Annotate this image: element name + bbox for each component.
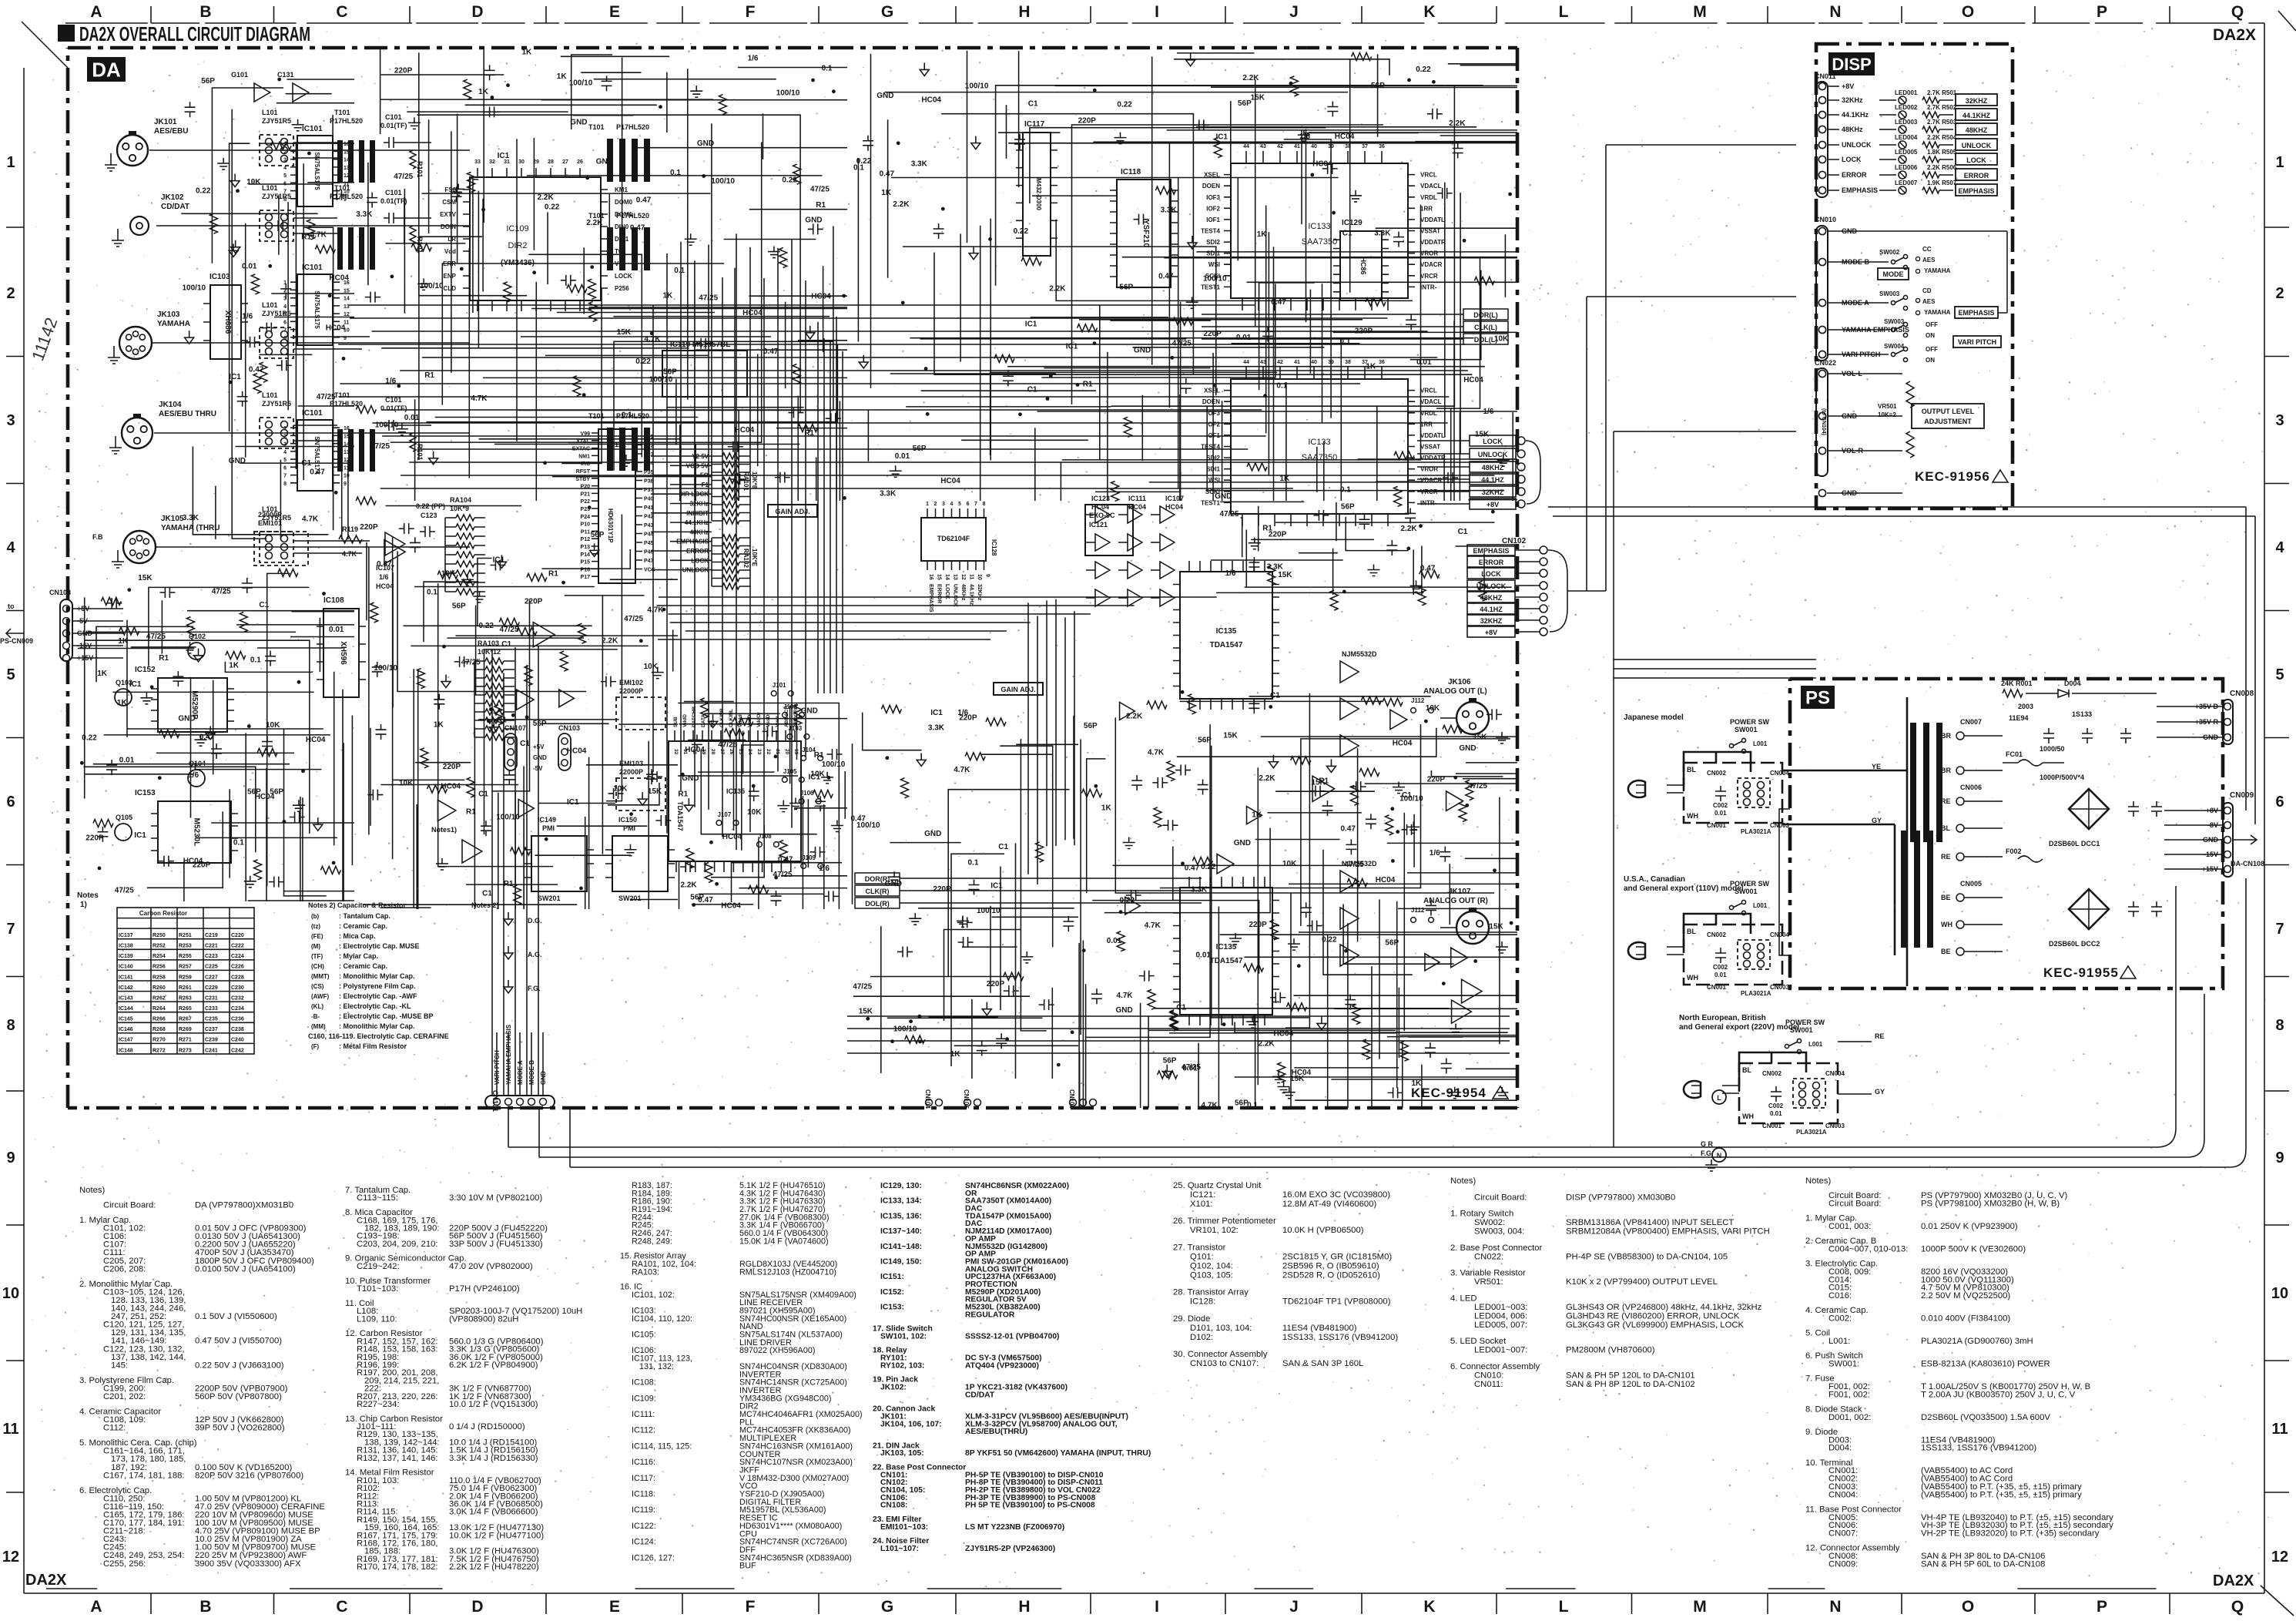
svg-text:0.47: 0.47 <box>1158 273 1174 281</box>
svg-text:47/25: 47/25 <box>146 633 166 641</box>
svg-text:EMPHASIS: EMPHASIS <box>1958 187 1994 195</box>
svg-text:L101: L101 <box>262 391 278 399</box>
svg-text:3.3K 1/4 J (RD156330): 3.3K 1/4 J (RD156330) <box>449 1454 538 1463</box>
svg-text:4.7K: 4.7K <box>310 230 327 239</box>
svg-text:GL3HD43 RE (VI860200) ERROR, U: GL3HD43 RE (VI860200) ERROR, UNLOCK <box>1566 1311 1740 1321</box>
svg-text:15K: 15K <box>138 574 153 582</box>
svg-text:1SS133, 1SS176 (VB941200): 1SS133, 1SS176 (VB941200) <box>1921 1444 2036 1453</box>
svg-text:0.01: 0.01 <box>242 263 257 271</box>
svg-text:10K*8: 10K*8 <box>751 472 758 489</box>
svg-text:560P 50V (VP807800): 560P 50V (VP807800) <box>195 1392 282 1401</box>
svg-text:0.1: 0.1 <box>670 169 681 177</box>
svg-text:10.0 1/2 F (VQ151300): 10.0 1/2 F (VQ151300) <box>449 1400 538 1409</box>
svg-text:IC1: IC1 <box>229 373 241 381</box>
svg-text:0.22: 0.22 <box>82 734 97 743</box>
svg-text:10.0K H (VPB06500): 10.0K H (VPB06500) <box>1282 1226 1364 1235</box>
svg-text:R268: R268 <box>153 1027 166 1032</box>
svg-text:OFF: OFF <box>1926 346 1938 353</box>
svg-text:L001: L001 <box>1753 902 1768 909</box>
svg-text:J: J <box>1289 3 1299 21</box>
svg-text:NC: NC <box>710 720 716 727</box>
svg-text:145:: 145: <box>111 1361 128 1370</box>
svg-text:47/25: 47/25 <box>1220 510 1239 519</box>
svg-text:J104: J104 <box>802 747 816 753</box>
svg-text:39: 39 <box>1328 360 1334 365</box>
svg-text:3.3K: 3.3K <box>928 723 945 732</box>
svg-text:GND: GND <box>1842 412 1858 420</box>
svg-text:GND: GND <box>77 629 93 637</box>
svg-text:IC122:: IC122: <box>632 1522 656 1531</box>
svg-text:IC119 M51957BL: IC119 M51957BL <box>670 341 730 349</box>
svg-text:CN105: CN105 <box>963 1089 970 1109</box>
svg-text:56P: 56P <box>1341 503 1355 512</box>
svg-text:R271: R271 <box>179 1038 192 1043</box>
svg-text:IC126, 127:: IC126, 127: <box>632 1553 675 1562</box>
svg-text:40: 40 <box>1311 360 1317 365</box>
svg-text:0.01: 0.01 <box>895 452 910 461</box>
svg-text:CSM: CSM <box>442 199 456 206</box>
svg-text:G R: G R <box>1701 1140 1714 1148</box>
svg-text:GND: GND <box>877 92 893 100</box>
svg-text:KEC-91955: KEC-91955 <box>2043 965 2119 980</box>
svg-text:44: 44 <box>1243 144 1249 149</box>
svg-text:T101: T101 <box>588 412 605 420</box>
svg-text:IC129: IC129 <box>1342 219 1363 227</box>
svg-text:XSEL: XSEL <box>1204 172 1220 179</box>
svg-text:4.7K: 4.7K <box>342 550 357 558</box>
svg-text:5: 5 <box>958 502 961 507</box>
svg-text:IC128:: IC128: <box>1190 1297 1215 1307</box>
svg-text:25: 25 <box>738 749 743 755</box>
svg-text:U.S.A., Canadian: U.S.A., Canadian <box>1624 875 1685 884</box>
svg-text:220P: 220P <box>1249 921 1268 929</box>
svg-text:IC1: IC1 <box>930 709 943 717</box>
svg-text:and General export (220V) mode: and General export (220V) model <box>1679 1023 1799 1032</box>
svg-text:7: 7 <box>6 921 15 938</box>
svg-text:30. Connector Assembly: 30. Connector Assembly <box>1173 1350 1268 1359</box>
svg-text:5: 5 <box>2275 666 2284 683</box>
svg-text:TEST4: TEST4 <box>1201 228 1220 235</box>
svg-text:PS-CN009: PS-CN009 <box>0 637 33 645</box>
svg-text:56P: 56P <box>690 893 704 901</box>
svg-text:WH: WH <box>1687 974 1698 982</box>
svg-text:GND: GND <box>924 830 941 838</box>
svg-text:100/10: 100/10 <box>893 1025 917 1033</box>
svg-text:(FE): (FE) <box>311 933 323 940</box>
svg-text:IOF2: IOF2 <box>1206 421 1220 428</box>
svg-text:CN107: CN107 <box>504 724 526 732</box>
svg-text:0.01(TF): 0.01(TF) <box>380 197 407 205</box>
svg-text:C221: C221 <box>205 944 218 949</box>
svg-text:CN004: CN004 <box>1770 770 1789 777</box>
svg-text:47/25: 47/25 <box>624 615 643 623</box>
svg-text:C001, 003:: C001, 003: <box>1828 1222 1871 1231</box>
svg-text:11E94: 11E94 <box>2009 714 2029 722</box>
svg-text:IC138: IC138 <box>119 944 133 949</box>
svg-text:JK102: JK102 <box>161 193 184 202</box>
svg-text:LOCK: LOCK <box>1483 438 1503 445</box>
svg-text:DIN0: DIN0 <box>615 223 629 230</box>
svg-text:CN002: CN002 <box>1762 1070 1781 1077</box>
svg-text:1/6: 1/6 <box>1299 133 1310 141</box>
svg-text:Japanese model: Japanese model <box>1624 713 1684 722</box>
svg-text:0.47: 0.47 <box>249 365 264 374</box>
svg-text:4: 4 <box>283 304 287 310</box>
svg-text:0.1: 0.1 <box>853 164 864 173</box>
svg-text:DA2X: DA2X <box>2213 26 2256 44</box>
svg-text:0.01: 0.01 <box>1107 937 1122 945</box>
svg-text:IRC: IRC <box>581 461 590 467</box>
svg-text:ERROR: ERROR <box>1842 171 1867 179</box>
svg-text:220P: 220P <box>1078 117 1097 126</box>
svg-text:5. LED Socket: 5. LED Socket <box>1450 1337 1507 1346</box>
svg-text:HC04: HC04 <box>306 736 326 744</box>
svg-text:-B-: -B- <box>311 1013 320 1020</box>
svg-text:11ES4 (VB481900): 11ES4 (VB481900) <box>1282 1324 1357 1333</box>
svg-text:HC04: HC04 <box>742 309 763 317</box>
svg-text:56P: 56P <box>201 77 215 86</box>
svg-text:2SB596 R, O (IB059610): 2SB596 R, O (IB059610) <box>1282 1261 1379 1270</box>
svg-text:CN011:: CN011: <box>1474 1380 1503 1389</box>
svg-text:SW201: SW201 <box>538 894 561 902</box>
svg-text:EMPHASIS: EMPHASIS <box>676 539 709 545</box>
svg-text:Notes1): Notes1) <box>431 826 457 834</box>
svg-text:IC108:: IC108: <box>632 1378 656 1388</box>
svg-text:P17HL520: P17HL520 <box>616 123 649 131</box>
svg-text:SN74HC365NSR (XD839A00): SN74HC365NSR (XD839A00) <box>739 1553 852 1562</box>
svg-text:JK103: JK103 <box>157 310 180 319</box>
svg-text:47/25: 47/25 <box>317 393 336 401</box>
svg-text:Notes): Notes) <box>79 1186 106 1195</box>
svg-text:4.7K: 4.7K <box>1117 992 1134 1000</box>
svg-text:JK104, 106, 107:: JK104, 106, 107: <box>880 1420 942 1428</box>
svg-text:YE: YE <box>1872 763 1881 770</box>
svg-text:1/6: 1/6 <box>188 771 199 780</box>
svg-text:PH-4P SE (VB858300) to DA-CN10: PH-4P SE (VB858300) to DA-CN104, 105 <box>1566 1252 1728 1261</box>
svg-text:2.2K: 2.2K <box>538 193 555 202</box>
svg-text:VSSAT: VSSAT <box>1420 444 1440 451</box>
svg-text:AES: AES <box>1922 257 1936 263</box>
svg-text:IC142: IC142 <box>119 985 133 991</box>
svg-text:IC103: IC103 <box>209 273 230 281</box>
svg-text:GND: GND <box>682 774 699 783</box>
svg-text:IC152: IC152 <box>135 666 156 674</box>
svg-text:33P 500V J (FU451330): 33P 500V J (FU451330) <box>449 1240 543 1249</box>
svg-text:Circuit Board:: Circuit Board: <box>1474 1193 1527 1202</box>
svg-text:2: 2 <box>283 434 287 439</box>
svg-text:42: 42 <box>1277 144 1283 149</box>
svg-text:R261: R261 <box>179 985 192 991</box>
svg-text:SRBM13186A (VP841400) INPUT SE: SRBM13186A (VP841400) INPUT SELECT <box>1566 1218 1734 1227</box>
svg-text:HC04: HC04 <box>1292 1069 1312 1077</box>
svg-text:10K: 10K <box>613 785 628 794</box>
svg-text:1000P 500V K (VE302600): 1000P 500V K (VE302600) <box>1921 1245 2026 1254</box>
svg-text:HC04: HC04 <box>376 582 394 590</box>
svg-text:IC147: IC147 <box>119 1038 133 1043</box>
svg-text:-15V: -15V <box>2204 851 2218 858</box>
svg-text:INTR-: INTR- <box>1420 284 1437 290</box>
svg-text:WSI: WSI <box>1208 477 1220 484</box>
svg-text:2: 2 <box>2275 285 2284 302</box>
svg-text:TD62104F: TD62104F <box>937 535 970 542</box>
svg-text:16: 16 <box>344 426 350 431</box>
svg-text:JK107: JK107 <box>1448 888 1471 896</box>
svg-text:C101: C101 <box>385 396 402 404</box>
svg-text:RA103: RA103 <box>478 639 499 647</box>
svg-text:: Ceramic Cap.: : Ceramic Cap. <box>339 962 387 970</box>
svg-text:ZJY51R5: ZJY51R5 <box>262 400 291 408</box>
svg-text:220P: 220P <box>394 66 413 75</box>
svg-text:P22: P22 <box>581 499 591 505</box>
svg-text:6: 6 <box>6 794 15 810</box>
svg-text:15K: 15K <box>1223 731 1238 740</box>
svg-text:SDI2: SDI2 <box>1206 455 1220 461</box>
svg-text:C1: C1 <box>259 601 269 609</box>
svg-text:T101: T101 <box>334 391 350 399</box>
svg-text:F.G: F.G <box>1701 1149 1711 1157</box>
svg-text:27: 27 <box>719 749 725 755</box>
svg-text:100/10: 100/10 <box>183 284 206 293</box>
svg-text:PLA3021A: PLA3021A <box>1741 990 1771 997</box>
svg-text:CLKINL: CLKINL <box>729 709 734 727</box>
svg-text:48KHz: 48KHz <box>960 584 966 601</box>
svg-text:P: P <box>2097 1598 2107 1616</box>
svg-text:32KHZ: 32KHZ <box>1966 97 1988 105</box>
svg-text:11: 11 <box>344 320 350 325</box>
svg-text:(MM): (MM) <box>311 1023 326 1030</box>
svg-text:GND: GND <box>805 216 822 224</box>
svg-text:C002: C002 <box>1713 964 1728 971</box>
svg-text:C235: C235 <box>205 1017 218 1022</box>
svg-text:DIR2: DIR2 <box>508 241 527 250</box>
svg-text:IC123: IC123 <box>1091 495 1110 502</box>
svg-text:SW002:: SW002: <box>1474 1218 1505 1227</box>
svg-text:N: N <box>1829 3 1841 21</box>
svg-text:(TF): (TF) <box>311 953 323 960</box>
svg-text:P256: P256 <box>615 285 629 292</box>
svg-text:47/25: 47/25 <box>699 294 718 303</box>
svg-text:P44: P44 <box>644 532 654 538</box>
svg-text:LOCK: LOCK <box>615 273 632 280</box>
svg-text:Vdd: Vdd <box>444 248 456 255</box>
svg-text:220P: 220P <box>1355 327 1373 336</box>
svg-text:VRDL: VRDL <box>1420 410 1437 417</box>
svg-text:4: 4 <box>283 450 287 455</box>
svg-text:HC04: HC04 <box>1165 503 1183 511</box>
svg-text:R273: R273 <box>179 1048 192 1053</box>
svg-text:IOF3: IOF3 <box>1206 410 1220 417</box>
svg-text:C1: C1 <box>501 640 511 649</box>
svg-text:IC1: IC1 <box>129 680 142 689</box>
svg-text:IC1: IC1 <box>990 881 1003 890</box>
svg-text:C1: C1 <box>1342 229 1352 237</box>
svg-text:CD/DAT: CD/DAT <box>965 1391 995 1399</box>
svg-text:Circuit Board:: Circuit Board: <box>103 1201 156 1210</box>
svg-text:P41: P41 <box>644 505 654 511</box>
svg-text:19: 19 <box>793 749 799 755</box>
svg-text:40: 40 <box>1311 144 1317 149</box>
svg-text:J105: J105 <box>783 768 797 775</box>
svg-text:3: 3 <box>283 442 287 448</box>
svg-text:13: 13 <box>344 166 350 171</box>
svg-text:CN104: CN104 <box>924 1089 931 1109</box>
svg-text:O: O <box>1962 3 1974 21</box>
svg-text:15: 15 <box>937 574 942 580</box>
svg-text:13: 13 <box>344 450 350 455</box>
svg-text:15K: 15K <box>617 328 632 337</box>
svg-text:IC101: IC101 <box>302 125 323 133</box>
svg-text:IOF3: IOF3 <box>1206 194 1220 201</box>
svg-text:TD62104F TP1 (VP808000): TD62104F TP1 (VP808000) <box>1282 1297 1391 1307</box>
svg-text:47/25: 47/25 <box>1468 782 1487 790</box>
svg-text:D101, 103, 104:: D101, 103, 104: <box>1190 1324 1252 1333</box>
svg-text:VR101, 102:: VR101, 102: <box>1190 1226 1238 1235</box>
svg-text:ON: ON <box>1926 357 1935 364</box>
svg-text:2.2 50V M (VQ252500): 2.2 50V M (VQ252500) <box>1921 1291 2010 1300</box>
svg-text:P35: P35 <box>644 470 654 475</box>
svg-text:C004~007, 010-013:: C004~007, 010-013: <box>1828 1245 1908 1254</box>
svg-text:+5V: +5V <box>533 743 545 750</box>
svg-text:CN022:: CN022: <box>1474 1252 1503 1261</box>
svg-text:100/10: 100/10 <box>1203 275 1227 284</box>
svg-text:HC04: HC04 <box>1376 876 1396 884</box>
svg-text:HC04: HC04 <box>1393 740 1413 748</box>
svg-text:+35V R: +35V R <box>2195 718 2219 726</box>
svg-text:POWER SW: POWER SW <box>1730 880 1770 888</box>
svg-text:DATCHR: DATCHR <box>692 706 697 727</box>
svg-text:10K: 10K <box>1282 860 1297 868</box>
svg-text:OFF: OFF <box>1926 321 1938 328</box>
svg-text:C255, 256:: C255, 256: <box>103 1559 146 1569</box>
svg-text:P42: P42 <box>644 515 654 520</box>
svg-text:16: 16 <box>344 280 350 286</box>
svg-text:C233: C233 <box>205 1006 218 1012</box>
svg-text:IC105:: IC105: <box>632 1331 656 1340</box>
svg-text:IC137~140:: IC137~140: <box>880 1227 922 1236</box>
svg-text:R270: R270 <box>153 1038 166 1043</box>
svg-text:ERROR: ERROR <box>686 548 709 555</box>
svg-text:P34: P34 <box>644 461 654 467</box>
svg-text:IC153:: IC153: <box>880 1304 904 1312</box>
svg-text:R170, 174, 178, 182:: R170, 174, 178, 182: <box>357 1562 438 1572</box>
svg-text:HC04: HC04 <box>1312 160 1332 169</box>
svg-text:C1: C1 <box>1028 99 1038 108</box>
svg-text:RA103:: RA103: <box>632 1267 659 1277</box>
svg-text:D102:: D102: <box>1190 1333 1213 1342</box>
svg-text:Q102: Q102 <box>189 633 206 640</box>
svg-text:C1: C1 <box>520 740 530 748</box>
svg-text:2.2K 1/2 F (HU478220): 2.2K 1/2 F (HU478220) <box>449 1562 539 1572</box>
svg-text:ADJUSTMENT: ADJUSTMENT <box>1924 418 1972 425</box>
svg-text:WH: WH <box>1687 812 1698 820</box>
svg-text:(b): (b) <box>311 913 320 920</box>
svg-text:LOCK: LOCK <box>944 584 950 599</box>
svg-text:P45: P45 <box>644 541 654 546</box>
svg-text:SW001: SW001 <box>1735 888 1758 895</box>
svg-text:TEST1: TEST1 <box>1201 284 1220 290</box>
svg-text:2SD528 R, O (ID052610): 2SD528 R, O (ID052610) <box>1282 1270 1380 1280</box>
svg-text:1/6: 1/6 <box>242 312 253 321</box>
svg-text:R1: R1 <box>424 371 434 380</box>
svg-text:P12: P12 <box>581 537 591 542</box>
svg-text:14: 14 <box>344 442 350 448</box>
svg-text:R101: R101 <box>416 237 424 253</box>
svg-text:NM1: NM1 <box>578 454 590 459</box>
svg-text:CN002: CN002 <box>1707 770 1726 777</box>
svg-text:IC140: IC140 <box>119 965 133 970</box>
svg-text:(M): (M) <box>311 943 320 950</box>
svg-text:LED003: LED003 <box>1895 119 1918 126</box>
svg-text:100/10: 100/10 <box>965 82 989 91</box>
svg-text:IC1: IC1 <box>493 555 505 564</box>
svg-text:1K: 1K <box>434 720 444 729</box>
svg-text:HC04: HC04 <box>1274 1029 1294 1038</box>
svg-text:C1: C1 <box>998 843 1008 851</box>
svg-text:DOEN: DOEN <box>1202 183 1220 190</box>
svg-text:SAN & SAN 3P 160L: SAN & SAN 3P 160L <box>1282 1359 1363 1368</box>
svg-text:3.3K: 3.3K <box>1161 206 1178 214</box>
svg-text:R1: R1 <box>804 429 814 438</box>
svg-text:47/25: 47/25 <box>810 186 830 194</box>
svg-text:HC04: HC04 <box>735 426 755 435</box>
svg-text:SW001: SW001 <box>1790 1026 1813 1034</box>
svg-text:C160, 116-119. Electrolytic Ca: C160, 116-119. Electrolytic Cap. CERAFIN… <box>308 1032 449 1040</box>
svg-text:9: 9 <box>344 482 347 487</box>
svg-text:56P: 56P <box>1084 722 1098 730</box>
svg-text:L001: L001 <box>1808 1041 1823 1048</box>
svg-text:15K: 15K <box>1473 733 1487 741</box>
svg-text:3.0K 1/4 F (VB066600): 3.0K 1/4 F (VB066600) <box>449 1508 538 1517</box>
svg-text:IC118: IC118 <box>1121 168 1141 176</box>
svg-text:SUB: SUB <box>673 717 679 727</box>
svg-text:IC135: IC135 <box>1216 943 1237 951</box>
svg-text:VCO 5V: VCO 5V <box>686 462 709 469</box>
svg-text:1: 1 <box>2275 154 2284 171</box>
svg-text:1K: 1K <box>229 662 240 670</box>
svg-text:56P: 56P <box>1371 82 1385 90</box>
svg-text:HC04: HC04 <box>1335 133 1355 141</box>
svg-text:C242: C242 <box>231 1048 244 1053</box>
svg-text:CLK(R): CLK(R) <box>866 888 890 895</box>
svg-text:IC1: IC1 <box>1216 133 1228 142</box>
svg-text:0.1: 0.1 <box>622 411 632 420</box>
svg-text:IC146: IC146 <box>119 1027 133 1032</box>
svg-text:0.1: 0.1 <box>250 656 261 665</box>
svg-text:15K: 15K <box>1251 93 1265 102</box>
svg-text:5: 5 <box>283 458 287 463</box>
svg-text:C002:: C002: <box>1828 1314 1852 1324</box>
svg-text:1. Rotary Switch: 1. Rotary Switch <box>1450 1210 1513 1219</box>
svg-text:3: 3 <box>283 158 287 163</box>
svg-text:P17HL520: P17HL520 <box>330 117 363 125</box>
svg-text:SW003: SW003 <box>1879 290 1900 297</box>
svg-text:VDDATL: VDDATL <box>1420 432 1445 439</box>
svg-text:0.01(TF): 0.01(TF) <box>380 404 407 412</box>
svg-text:CN004: CN004 <box>1825 1070 1845 1077</box>
svg-text:K10K x 2 (VP799400) OUTPUT LEV: K10K x 2 (VP799400) OUTPUT LEVEL <box>1566 1277 1718 1287</box>
svg-text:48KHZ: 48KHZ <box>1966 126 1988 134</box>
svg-text:R119: R119 <box>342 525 358 533</box>
svg-text:Q102, 104:: Q102, 104: <box>1190 1261 1233 1270</box>
svg-text:IC141: IC141 <box>119 975 133 980</box>
svg-text:DISP (VP797800) XM030B0: DISP (VP797800) XM030B0 <box>1566 1193 1675 1202</box>
svg-text:220P: 220P <box>1427 775 1446 784</box>
svg-text:UNLOCK: UNLOCK <box>1962 142 1992 149</box>
svg-text:R1: R1 <box>678 790 688 799</box>
svg-text:220P: 220P <box>85 834 104 842</box>
svg-text:IC121: IC121 <box>1089 521 1108 529</box>
svg-text:10: 10 <box>2 1285 19 1302</box>
